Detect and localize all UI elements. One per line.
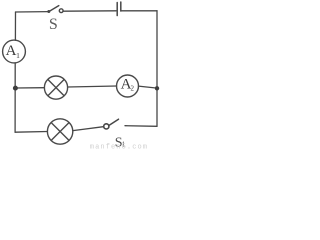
svg-text:manfen5.com: manfen5.com — [90, 144, 148, 152]
svg-text:S: S — [49, 16, 58, 33]
svg-text:1: 1 — [16, 51, 20, 60]
svg-text:A: A — [6, 43, 17, 59]
svg-text:2: 2 — [130, 84, 134, 92]
